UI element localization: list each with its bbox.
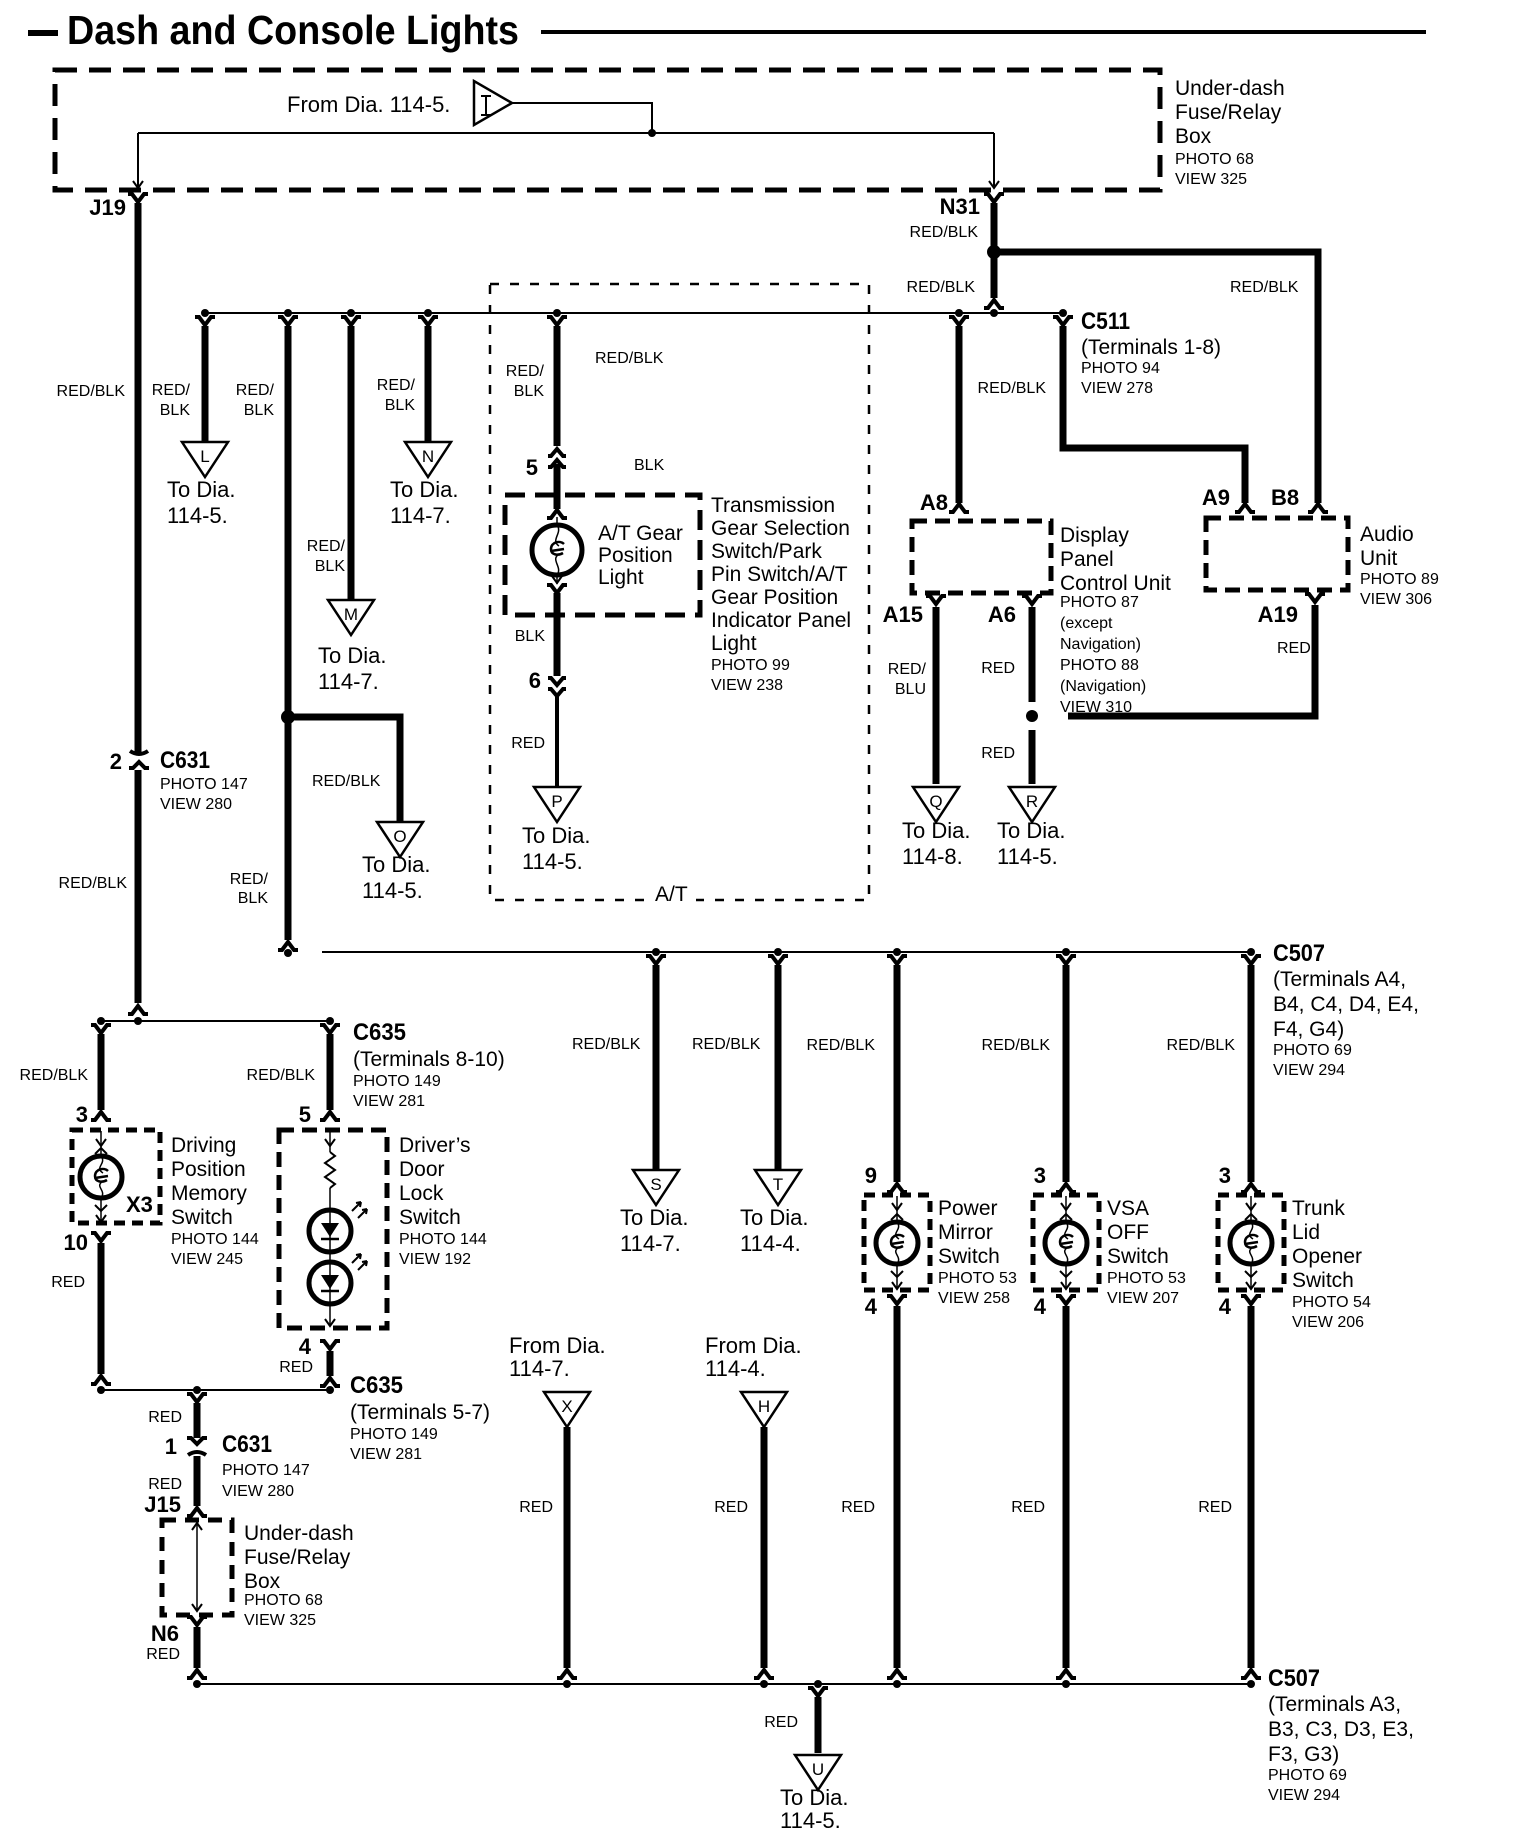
wire N31 lower xyxy=(991,255,998,298)
svg-text:114-5.: 114-5. xyxy=(362,878,423,903)
svg-text:VIEW 206: VIEW 206 xyxy=(1292,1314,1364,1331)
connector power mirror switch box entry xyxy=(887,1184,907,1192)
svg-text:Lock: Lock xyxy=(399,1182,444,1205)
wire VSA OFF switch upper xyxy=(1063,965,1070,1182)
svg-text:Under-dash: Under-dash xyxy=(244,1522,354,1545)
svg-text:Driving: Driving xyxy=(171,1134,236,1157)
svg-text:BLK: BLK xyxy=(315,558,346,575)
svg-text:RED/: RED/ xyxy=(377,377,416,394)
svg-text:PHOTO 149: PHOTO 149 xyxy=(350,1426,438,1443)
wire H to bus xyxy=(761,1427,768,1668)
wire junction to B8 xyxy=(994,252,1318,503)
svg-text:RED/BLK: RED/BLK xyxy=(1167,1037,1236,1054)
node bus313 x1063 xyxy=(1059,309,1067,317)
svg-text:Opener: Opener xyxy=(1292,1245,1362,1268)
lamp (memory switch) xyxy=(80,1156,122,1198)
wire trunk lid opener switch lower xyxy=(1248,1306,1255,1668)
svg-text:From Dia. 114-5.: From Dia. 114-5. xyxy=(287,92,450,117)
svg-text:C507: C507 xyxy=(1268,1665,1320,1692)
node bus313 x288 xyxy=(284,309,292,317)
svg-text:Audio: Audio xyxy=(1360,523,1414,546)
svg-text:To Dia.: To Dia. xyxy=(902,818,970,843)
connector lamp branch top xyxy=(547,317,567,325)
svg-text:Under-dash: Under-dash xyxy=(1175,77,1285,100)
connector memory wire bottom xyxy=(91,1376,111,1384)
svg-text:VIEW 280: VIEW 280 xyxy=(160,796,232,813)
title rule xyxy=(541,30,1426,34)
connector T branch top xyxy=(768,956,788,964)
svg-text:114-5.: 114-5. xyxy=(997,844,1058,869)
connector trunk lid opener switch box exit xyxy=(1241,1296,1261,1304)
lamp (VSA OFF switch) xyxy=(1045,1222,1087,1264)
svg-text:Gear Selection: Gear Selection xyxy=(711,517,850,540)
svg-text:U: U xyxy=(812,1760,824,1779)
svg-text:To Dia.: To Dia. xyxy=(780,1785,848,1810)
wire A8 branch xyxy=(956,326,963,503)
svg-text:A9: A9 xyxy=(1202,485,1230,510)
svg-text:From Dia.: From Dia. xyxy=(509,1333,606,1358)
connector triangle S to Dia 114-7 xyxy=(633,1170,679,1205)
svg-text:VIEW 281: VIEW 281 xyxy=(353,1093,425,1110)
svg-text:To Dia.: To Dia. xyxy=(740,1205,808,1230)
svg-text:VIEW 238: VIEW 238 xyxy=(711,677,783,694)
svg-text:Lid: Lid xyxy=(1292,1221,1320,1244)
LED 2 (door lock) xyxy=(309,1262,351,1304)
VSA OFF switch lamp feed arrow xyxy=(1065,1196,1067,1222)
memory lamp exit xyxy=(100,1198,102,1222)
display panel control unit dashed box xyxy=(912,521,1051,593)
node bus952 x1066 xyxy=(1062,948,1070,956)
svg-text:PHOTO 69: PHOTO 69 xyxy=(1273,1042,1352,1059)
node door on line1390 xyxy=(326,1386,334,1394)
svg-text:C635: C635 xyxy=(350,1372,403,1399)
wire C507 bus (terminals 4) xyxy=(322,951,1251,953)
svg-text:Display: Display xyxy=(1060,524,1129,547)
svg-text:H: H xyxy=(758,1397,770,1416)
node bus952 x1251 xyxy=(1247,948,1255,956)
svg-text:(Terminals 5-7): (Terminals 5-7) xyxy=(350,1401,490,1424)
svg-text:114-5.: 114-5. xyxy=(167,503,228,528)
title dash mark xyxy=(28,30,58,36)
svg-text:Control Unit: Control Unit xyxy=(1060,572,1171,595)
svg-text:X3: X3 xyxy=(126,1192,153,1217)
connector N6 xyxy=(187,1617,207,1625)
svg-text:C631: C631 xyxy=(222,1431,272,1458)
svg-text:A19: A19 xyxy=(1258,602,1298,627)
connector C631 (pin 1) xyxy=(187,1438,207,1444)
svg-text:PHOTO 53: PHOTO 53 xyxy=(1107,1270,1186,1287)
wire door lower xyxy=(327,1351,334,1376)
svg-text:RED/: RED/ xyxy=(236,382,275,399)
svg-text:(except: (except xyxy=(1060,615,1113,632)
node 288 on C507 bus xyxy=(284,949,292,957)
svg-text:A/T Gear: A/T Gear xyxy=(598,522,683,545)
connector memory box exit xyxy=(91,1233,111,1241)
wire C511 to A9 xyxy=(1063,326,1245,503)
connector J19 xyxy=(128,194,148,202)
wire into lamp xyxy=(554,464,561,509)
node bus313 x557 xyxy=(553,309,561,317)
svg-text:3: 3 xyxy=(1034,1163,1046,1188)
connector A19 xyxy=(1305,594,1325,602)
svg-text:1: 1 xyxy=(165,1434,177,1459)
connector triangle I xyxy=(474,81,512,125)
under-dash fuse/relay box (top) dashed outline xyxy=(55,70,1160,190)
svg-text:S: S xyxy=(650,1175,661,1194)
wire memory lower xyxy=(98,1243,105,1374)
connector N31 wire bottom xyxy=(984,300,1004,308)
wire resistor to LED1 xyxy=(329,1188,331,1210)
svg-text:P: P xyxy=(551,792,562,811)
wire top bus inside fuse box xyxy=(138,132,994,134)
node bus1684 x764 xyxy=(760,1680,768,1688)
svg-text:Light: Light xyxy=(598,566,644,589)
svg-text:RED/: RED/ xyxy=(152,382,191,399)
connector C511 branch xyxy=(1053,317,1073,325)
connector VSA OFF switch box entry xyxy=(1056,1184,1076,1192)
wire 288 branch upper xyxy=(285,326,292,717)
svg-text:Light: Light xyxy=(711,632,757,655)
svg-text:RED/: RED/ xyxy=(230,871,269,888)
trunk lid opener switch lamp exit xyxy=(1250,1264,1252,1289)
connector N branch top xyxy=(418,317,438,325)
connector triangle X from Dia 114-7 xyxy=(544,1392,590,1427)
svg-text:BLK: BLK xyxy=(515,628,546,645)
svg-text:To Dia.: To Dia. xyxy=(390,477,458,502)
svg-text:6: 6 xyxy=(529,668,541,693)
wire N6 drop xyxy=(194,1627,201,1668)
svg-text:VIEW 306: VIEW 306 xyxy=(1360,591,1432,608)
svg-text:RED: RED xyxy=(511,735,545,752)
svg-text:RED: RED xyxy=(1011,1499,1045,1516)
svg-text:(Terminals 8-10): (Terminals 8-10) xyxy=(353,1048,505,1071)
svg-text:Memory: Memory xyxy=(171,1182,247,1205)
svg-text:A8: A8 xyxy=(920,490,948,515)
connector door wire bottom xyxy=(320,1378,340,1386)
svg-text:To Dia.: To Dia. xyxy=(167,477,235,502)
svg-text:PHOTO 144: PHOTO 144 xyxy=(399,1231,487,1248)
svg-text:VIEW 325: VIEW 325 xyxy=(1175,171,1247,188)
svg-text:Unit: Unit xyxy=(1360,547,1398,570)
svg-text:BLK: BLK xyxy=(514,383,545,400)
node junction A6/A19 xyxy=(1026,710,1038,722)
svg-text:114-7.: 114-7. xyxy=(390,503,451,528)
connector trunk lid opener switch wire bottom xyxy=(1241,1670,1261,1678)
connector triangle H from Dia 114-4 xyxy=(741,1392,787,1427)
svg-text:Trunk: Trunk xyxy=(1292,1197,1345,1220)
svg-text:PHOTO 94: PHOTO 94 xyxy=(1081,360,1160,377)
svg-text:A15: A15 xyxy=(883,602,923,627)
connector trunk lid opener switch branch top xyxy=(1241,956,1261,964)
wire branch to O xyxy=(288,717,400,822)
node bus952 x656 xyxy=(652,948,660,956)
svg-text:RED/BLK: RED/BLK xyxy=(57,383,126,400)
wire M branch xyxy=(348,326,355,600)
connector power mirror switch box exit xyxy=(887,1296,907,1304)
svg-text:To Dia.: To Dia. xyxy=(522,823,590,848)
svg-text:R: R xyxy=(1026,792,1038,811)
A/T gear position light dashed box xyxy=(505,495,700,615)
svg-text:9: 9 xyxy=(865,1163,877,1188)
connector 288 wire bottom xyxy=(278,942,298,950)
svg-text:Switch: Switch xyxy=(938,1245,1000,1268)
connector N31 xyxy=(984,194,1004,202)
svg-text:PHOTO 149: PHOTO 149 xyxy=(353,1073,441,1090)
node bus1684 x818 xyxy=(814,1680,822,1688)
svg-text:5: 5 xyxy=(299,1102,311,1127)
svg-text:114-5.: 114-5. xyxy=(780,1808,841,1833)
audio unit dashed box xyxy=(1206,518,1348,590)
wire J19 vertical lower xyxy=(135,770,142,1003)
svg-text:VIEW 258: VIEW 258 xyxy=(938,1290,1010,1307)
svg-text:114-5.: 114-5. xyxy=(522,849,583,874)
svg-text:To Dia.: To Dia. xyxy=(997,818,1065,843)
svg-text:PHOTO 53: PHOTO 53 xyxy=(938,1270,1017,1287)
connector triangle L to Dia 114-5 xyxy=(182,442,228,477)
svg-text:4: 4 xyxy=(865,1294,878,1319)
connector J19 wire bottom xyxy=(128,1006,148,1014)
node feed left xyxy=(97,1017,105,1025)
connector triangle R to Dia 114-5 xyxy=(1009,787,1055,822)
connector triangle T to Dia 114-4 xyxy=(755,1170,801,1205)
svg-text:VIEW 278: VIEW 278 xyxy=(1081,380,1153,397)
svg-text:PHOTO 68: PHOTO 68 xyxy=(1175,151,1254,168)
wire L branch xyxy=(202,326,209,442)
connector J15 box entry xyxy=(187,1508,207,1516)
wire feed line to switches xyxy=(101,1020,330,1022)
svg-text:PHOTO 68: PHOTO 68 xyxy=(244,1592,323,1609)
svg-text:RED/BLK: RED/BLK xyxy=(59,875,128,892)
svg-text:10: 10 xyxy=(64,1230,88,1255)
svg-text:Power: Power xyxy=(938,1197,998,1220)
wire trunk lid opener switch upper xyxy=(1248,965,1255,1182)
svg-text:Position: Position xyxy=(171,1158,246,1181)
connector trunk lid opener switch box entry xyxy=(1241,1184,1261,1192)
svg-text:RED/BLK: RED/BLK xyxy=(312,773,381,790)
wire drop to N31 with arrow xyxy=(993,133,995,186)
svg-text:3: 3 xyxy=(1219,1163,1231,1188)
wire A6 lower xyxy=(1029,730,1036,784)
connector triangle M to Dia 114-7 xyxy=(328,600,374,635)
svg-text:RED: RED xyxy=(146,1646,180,1663)
svg-text:PHOTO 144: PHOTO 144 xyxy=(171,1231,259,1248)
trunk lid opener switch dashed box xyxy=(1218,1195,1284,1290)
connector A15 xyxy=(926,596,946,604)
svg-text:RED/BLK: RED/BLK xyxy=(595,350,664,367)
svg-text:(Terminals A4,: (Terminals A4, xyxy=(1273,968,1406,991)
connector S branch top xyxy=(646,956,666,964)
svg-text:VSA: VSA xyxy=(1107,1197,1149,1220)
connector VSA OFF switch wire bottom xyxy=(1056,1670,1076,1678)
svg-text:Fuse/Relay: Fuse/Relay xyxy=(1175,101,1282,124)
emission arrows LED1 xyxy=(352,1202,361,1211)
svg-text:114-8.: 114-8. xyxy=(902,844,963,869)
svg-text:RED/: RED/ xyxy=(888,661,927,678)
svg-text:BLK: BLK xyxy=(238,890,269,907)
svg-text:B8: B8 xyxy=(1271,485,1299,510)
svg-text:PHOTO 88: PHOTO 88 xyxy=(1060,657,1139,674)
node bus313 x205 xyxy=(201,309,209,317)
svg-text:114-7.: 114-7. xyxy=(318,669,379,694)
connector VSA OFF switch box exit xyxy=(1056,1296,1076,1304)
connector B8 entry xyxy=(1308,504,1328,512)
svg-text:N: N xyxy=(422,447,434,466)
wire N branch xyxy=(425,326,432,442)
svg-text:C507: C507 xyxy=(1273,940,1325,967)
svg-text:T: T xyxy=(773,1175,783,1194)
svg-text:Transmission: Transmission xyxy=(711,494,835,517)
svg-text:RED/BLK: RED/BLK xyxy=(978,380,1047,397)
svg-text:RED/BLK: RED/BLK xyxy=(907,279,976,296)
connector A9 entry xyxy=(1235,504,1255,512)
svg-text:RED: RED xyxy=(279,1359,313,1376)
svg-text:OFF: OFF xyxy=(1107,1221,1149,1244)
svg-text:RED: RED xyxy=(764,1714,798,1731)
node memory on line1390 xyxy=(97,1386,105,1394)
connector A8 entry xyxy=(949,504,969,512)
svg-text:4: 4 xyxy=(1219,1294,1232,1319)
svg-text:Position: Position xyxy=(598,544,673,567)
wire power mirror switch upper xyxy=(894,965,901,1182)
power mirror switch dashed box xyxy=(864,1195,930,1290)
connector door box entry xyxy=(320,1112,340,1120)
svg-text:Switch: Switch xyxy=(171,1206,233,1229)
emission arrows LED2 xyxy=(352,1254,361,1263)
node bus1684 x897 xyxy=(893,1680,901,1688)
connector memory branch top xyxy=(91,1025,111,1033)
node bus1684 x1066 xyxy=(1062,1680,1070,1688)
node bus952 x778 xyxy=(774,948,782,956)
svg-text:Switch: Switch xyxy=(399,1206,461,1229)
svg-text:A6: A6 xyxy=(988,602,1016,627)
wire N31 upper xyxy=(991,203,998,250)
svg-text:B4, C4, D4, E4,: B4, C4, D4, E4, xyxy=(1273,993,1419,1016)
svg-text:RED: RED xyxy=(981,745,1015,762)
svg-text:C511: C511 xyxy=(1081,308,1130,335)
svg-text:BLK: BLK xyxy=(244,402,275,419)
svg-text:VIEW 245: VIEW 245 xyxy=(171,1251,243,1268)
connector triangle O to Dia 114-5 xyxy=(377,822,423,857)
svg-text:RED: RED xyxy=(714,1499,748,1516)
wire A15 to Q xyxy=(933,607,940,784)
wire return drop upper xyxy=(194,1403,201,1438)
node junction 288/branch-O xyxy=(281,710,295,724)
connector triangle U to Dia 114-5 xyxy=(795,1755,841,1790)
connector 288 branch top xyxy=(278,317,298,325)
svg-text:Pin Switch/A/T: Pin Switch/A/T xyxy=(711,563,848,586)
svg-text:(Navigation): (Navigation) xyxy=(1060,678,1146,695)
wire X to bus xyxy=(564,1427,571,1668)
lamp (trunk lid opener switch) xyxy=(1230,1222,1272,1264)
node junction N31/B8 xyxy=(987,245,1001,259)
svg-text:BLK: BLK xyxy=(634,457,665,474)
svg-text:X: X xyxy=(561,1397,572,1416)
svg-text:VIEW 207: VIEW 207 xyxy=(1107,1290,1179,1307)
connector A8 branch top xyxy=(949,317,969,325)
svg-text:VIEW 280: VIEW 280 xyxy=(222,1483,294,1500)
svg-text:Box: Box xyxy=(1175,125,1212,148)
svg-text:4: 4 xyxy=(299,1334,312,1359)
wire U drop xyxy=(815,1697,822,1753)
wire memory branch xyxy=(98,1034,105,1110)
svg-text:C635: C635 xyxy=(353,1019,406,1046)
node bus1684 x197 xyxy=(193,1680,201,1688)
svg-text:114-4.: 114-4. xyxy=(705,1356,766,1381)
svg-text:BLK: BLK xyxy=(385,397,416,414)
wire door branch xyxy=(327,1034,334,1110)
svg-text:Switch: Switch xyxy=(1107,1245,1169,1268)
drivers door lock switch dashed box xyxy=(279,1130,387,1328)
svg-text:RED/BLK: RED/BLK xyxy=(692,1036,761,1053)
svg-text:RED/BLK: RED/BLK xyxy=(910,224,979,241)
svg-text:To Dia.: To Dia. xyxy=(318,643,386,668)
svg-text:From Dia.: From Dia. xyxy=(705,1333,802,1358)
svg-text:Driver’s: Driver’s xyxy=(399,1134,471,1157)
A/T region dashed box xyxy=(490,284,869,900)
svg-text:114-4.: 114-4. xyxy=(740,1231,801,1256)
node bus1684 x1251 xyxy=(1247,1680,1255,1688)
connector N6 wire bottom xyxy=(187,1670,207,1678)
svg-text:RED: RED xyxy=(148,1409,182,1426)
connector power mirror switch branch top xyxy=(887,956,907,964)
wire C507 bus (terminals 3) xyxy=(197,1683,1251,1685)
wire lamp to pin 6 xyxy=(554,593,561,676)
svg-text:RED/BLK: RED/BLK xyxy=(1230,279,1299,296)
wire drop to J19 with arrow xyxy=(137,133,139,186)
svg-text:PHOTO 87: PHOTO 87 xyxy=(1060,594,1139,611)
node feed right xyxy=(326,1017,334,1025)
svg-text:O: O xyxy=(393,827,406,846)
lamp (power mirror switch) xyxy=(876,1222,918,1264)
svg-text:Switch/Park: Switch/Park xyxy=(711,540,822,563)
wire LED1 to LED2 xyxy=(329,1252,331,1262)
svg-text:RED: RED xyxy=(148,1476,182,1493)
resistor (door lock illumination) xyxy=(325,1152,335,1188)
svg-text:Mirror: Mirror xyxy=(938,1221,993,1244)
svg-text:PHOTO 147: PHOTO 147 xyxy=(160,776,248,793)
connector memory box entry xyxy=(91,1112,111,1120)
label A/T xyxy=(648,884,696,903)
door exit arrow xyxy=(329,1304,331,1326)
wire VSA OFF switch lower xyxy=(1063,1306,1070,1668)
svg-text:VIEW 294: VIEW 294 xyxy=(1268,1787,1340,1804)
svg-text:Navigation): Navigation) xyxy=(1060,636,1141,653)
wire return drop lower xyxy=(194,1456,201,1506)
trunk lid opener switch lamp feed arrow xyxy=(1250,1196,1252,1222)
svg-text:RED/: RED/ xyxy=(506,363,545,380)
wire return line y1390 xyxy=(101,1389,330,1391)
wire 288 branch lower xyxy=(285,717,292,940)
svg-text:BLU: BLU xyxy=(895,681,926,698)
power mirror switch lamp exit xyxy=(896,1264,898,1289)
wire from triangle I to bus xyxy=(512,103,652,132)
svg-text:PHOTO 99: PHOTO 99 xyxy=(711,657,790,674)
svg-text:BLK: BLK xyxy=(160,402,191,419)
connector triangle P to Dia 114-5 xyxy=(534,787,580,822)
under-dash fuse/relay box (lower) dashed outline xyxy=(162,1520,232,1615)
connector M branch top xyxy=(341,317,361,325)
svg-text:RED/BLK: RED/BLK xyxy=(807,1037,876,1054)
svg-text:PHOTO 147: PHOTO 147 xyxy=(222,1462,310,1479)
node bus313 x959 xyxy=(955,309,963,317)
connector power mirror switch wire bottom xyxy=(887,1670,907,1678)
svg-text:VIEW 294: VIEW 294 xyxy=(1273,1062,1345,1079)
svg-text:RED/BLK: RED/BLK xyxy=(247,1067,316,1084)
memory lamp feed xyxy=(100,1131,102,1156)
svg-text:F4, G4): F4, G4) xyxy=(1273,1018,1344,1041)
svg-text:N31: N31 xyxy=(940,194,980,219)
connector X wire bottom xyxy=(557,1670,577,1678)
